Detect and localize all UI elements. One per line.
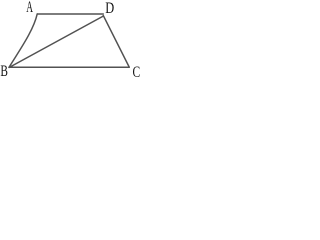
side DC (103, 16, 129, 68)
side BC (9, 66, 129, 68)
svg-text:B: B (0, 62, 8, 77)
svg-text:A: A (26, 0, 33, 15)
diagonal BD (9, 16, 103, 67)
svg-text:D: D (105, 0, 114, 17)
side AB (slightly bowed) (9, 14, 37, 67)
side AD (37, 13, 103, 15)
wire (9, 14, 129, 67)
svg-text:C: C (133, 64, 141, 77)
